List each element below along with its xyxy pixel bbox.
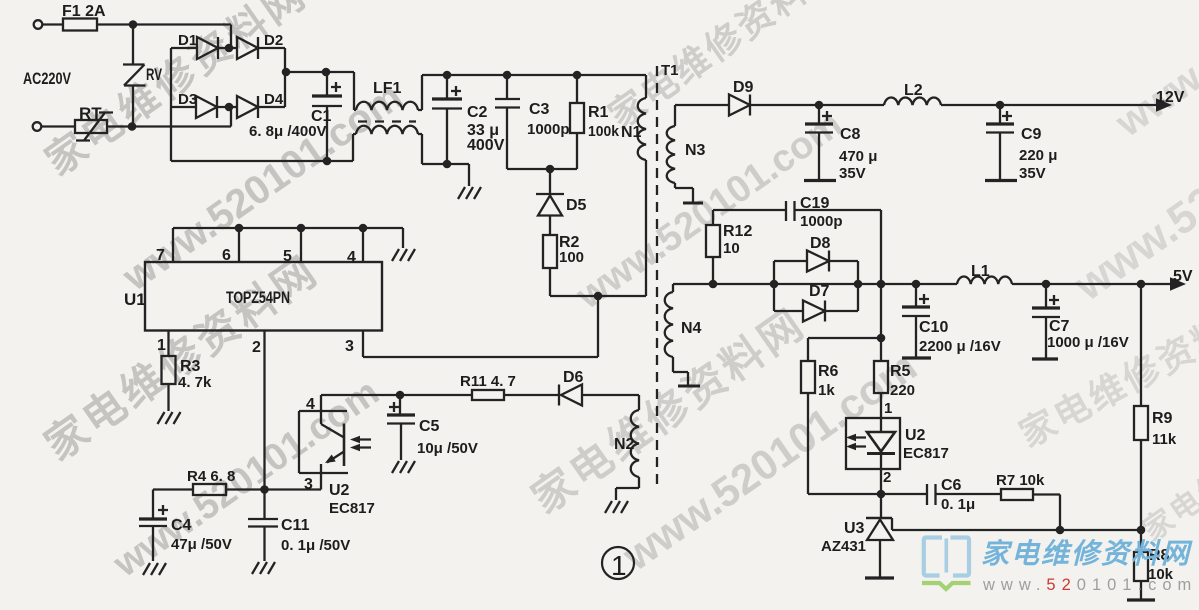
- svg-text:R5: R5: [890, 363, 911, 380]
- svg-text:U2: U2: [905, 427, 926, 444]
- svg-text:C10: C10: [919, 319, 948, 336]
- svg-text:F1 2A: F1 2A: [62, 3, 106, 20]
- svg-text:1000 μ /16V: 1000 μ /16V: [1047, 334, 1129, 351]
- svg-text:N2: N2: [614, 436, 635, 453]
- svg-text:100k: 100k: [588, 123, 620, 140]
- svg-text:T1: T1: [661, 62, 679, 79]
- svg-text:35V: 35V: [1019, 165, 1046, 182]
- svg-text:2: 2: [252, 339, 261, 356]
- svg-text:EC817: EC817: [329, 500, 375, 517]
- svg-text:47μ /50V: 47μ /50V: [171, 536, 232, 553]
- svg-text:L2: L2: [904, 82, 923, 99]
- svg-text:www.520101.com: www.520101.com: [613, 342, 924, 580]
- svg-text:C4: C4: [171, 517, 192, 534]
- svg-text:N1: N1: [621, 124, 642, 141]
- svg-text:C2: C2: [467, 104, 488, 121]
- svg-text:C8: C8: [840, 126, 861, 143]
- svg-text:1000p: 1000p: [800, 213, 843, 230]
- svg-text:1000p: 1000p: [527, 121, 570, 138]
- svg-text:C7: C7: [1049, 318, 1070, 335]
- svg-text:D2: D2: [264, 32, 283, 49]
- svg-text:D9: D9: [733, 79, 754, 96]
- svg-text:AZ431: AZ431: [821, 538, 866, 555]
- svg-text:D8: D8: [810, 235, 831, 252]
- svg-text:C3: C3: [529, 101, 550, 118]
- svg-text:6. 8μ /400V: 6. 8μ /400V: [249, 123, 327, 140]
- svg-text:D1: D1: [178, 32, 197, 49]
- svg-text:R6: R6: [818, 363, 839, 380]
- svg-text:2200 μ /16V: 2200 μ /16V: [919, 338, 1001, 355]
- svg-text:400V: 400V: [467, 137, 505, 154]
- svg-text:10: 10: [723, 240, 740, 257]
- svg-text:35V: 35V: [839, 165, 866, 182]
- svg-text:R9: R9: [1152, 410, 1173, 427]
- svg-text:2: 2: [883, 469, 891, 486]
- svg-text:10μ /50V: 10μ /50V: [417, 440, 478, 457]
- svg-text:6: 6: [222, 247, 231, 264]
- svg-text:D3: D3: [178, 91, 197, 108]
- svg-text:C19: C19: [800, 195, 829, 212]
- svg-text:AC220V: AC220V: [23, 69, 71, 88]
- svg-text:D7: D7: [809, 283, 830, 300]
- svg-text:1: 1: [611, 550, 627, 581]
- svg-text:L1: L1: [971, 263, 990, 280]
- svg-text:1: 1: [157, 337, 166, 354]
- svg-text:100: 100: [559, 249, 584, 266]
- svg-text:3: 3: [345, 338, 354, 355]
- svg-text:0. 1μ /50V: 0. 1μ /50V: [281, 537, 350, 554]
- svg-text:R3: R3: [180, 358, 201, 375]
- svg-text:4: 4: [347, 249, 356, 266]
- svg-text:R11 4. 7: R11 4. 7: [460, 373, 516, 390]
- svg-text:R7 10k: R7 10k: [996, 472, 1045, 489]
- svg-text:RT: RT: [79, 104, 102, 123]
- svg-text:U3: U3: [844, 520, 865, 537]
- svg-text:12V: 12V: [1156, 89, 1185, 106]
- svg-text:470 μ: 470 μ: [839, 148, 877, 165]
- svg-text:N4: N4: [681, 320, 702, 337]
- svg-text:5: 5: [283, 248, 292, 265]
- svg-text:3: 3: [304, 476, 313, 493]
- svg-text:U1: U1: [124, 290, 146, 309]
- svg-text:N3: N3: [685, 142, 706, 159]
- svg-text:220: 220: [890, 382, 915, 399]
- svg-text:7: 7: [156, 247, 165, 264]
- svg-text:R12: R12: [723, 223, 752, 240]
- svg-text:C9: C9: [1021, 126, 1042, 143]
- svg-text:D5: D5: [566, 197, 587, 214]
- svg-text:D6: D6: [563, 369, 584, 386]
- svg-text:220 μ: 220 μ: [1019, 147, 1057, 164]
- svg-text:www.520101.com: www.520101.com: [1107, 0, 1199, 146]
- svg-text:家电维修资料网: 家电维修资料网: [981, 538, 1193, 569]
- svg-text:R1: R1: [588, 104, 609, 121]
- svg-text:4. 7k: 4. 7k: [178, 374, 212, 391]
- svg-text:www.520101.com: www.520101.com: [982, 576, 1197, 594]
- svg-text:C6: C6: [941, 477, 962, 494]
- svg-text:C1: C1: [311, 108, 332, 125]
- svg-text:C5: C5: [419, 418, 440, 435]
- svg-text:R4 6. 8: R4 6. 8: [187, 468, 235, 485]
- svg-text:1k: 1k: [818, 382, 835, 399]
- svg-text:C11: C11: [281, 517, 310, 534]
- svg-text:U2: U2: [329, 482, 350, 499]
- svg-text:D4: D4: [264, 91, 284, 108]
- svg-text:TOPZ54PN: TOPZ54PN: [226, 288, 290, 307]
- svg-text:RV: RV: [146, 65, 162, 84]
- svg-text:11k: 11k: [1152, 431, 1177, 448]
- svg-text:5V: 5V: [1173, 268, 1193, 285]
- svg-text:EC817: EC817: [903, 445, 949, 462]
- svg-text:1: 1: [884, 400, 892, 417]
- svg-text:4: 4: [306, 396, 315, 413]
- svg-text:LF1: LF1: [373, 80, 402, 97]
- svg-text:0. 1μ: 0. 1μ: [941, 496, 975, 513]
